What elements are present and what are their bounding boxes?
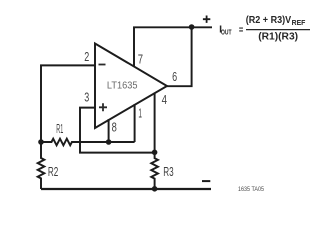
resistor R3 value label: [163, 165, 173, 179]
resistor R2: [38, 142, 45, 189]
op-amp part label LT1635: [107, 80, 138, 91]
svg-text:REF: REF: [292, 20, 307, 27]
pin number 1: [138, 107, 142, 121]
svg-text:8: 8: [112, 121, 117, 135]
op-amp U1 LT1635 triangle: [95, 44, 167, 129]
wire pin 1: [134, 104, 136, 142]
node D junction dot R3 on bottom rail: [152, 186, 158, 192]
node E junction dot output on top wire: [189, 24, 195, 30]
wire bottom rail: [41, 188, 211, 190]
svg-text:=: =: [239, 24, 243, 36]
svg-text:(R2 + R3)V: (R2 + R3)V: [246, 14, 292, 26]
node C junction dot pin3/pin4/R3: [152, 150, 158, 156]
svg-text:6: 6: [172, 70, 177, 84]
output current label IOUT equation: [219, 24, 243, 37]
svg-text:LT1635: LT1635: [107, 80, 138, 91]
wire pin 4: [154, 93, 156, 153]
wire pin 2 input: [41, 65, 95, 142]
resistor R3: [151, 152, 158, 189]
node B junction dot pin8 on R1 wire: [106, 139, 112, 145]
svg-text:3: 3: [84, 91, 89, 105]
svg-text:OUT: OUT: [221, 29, 232, 36]
pin number 7: [138, 53, 143, 67]
wire pin 8: [108, 119, 110, 142]
equation fraction bar: [246, 29, 310, 31]
svg-text:R3: R3: [163, 165, 173, 179]
resistor R2 value label: [48, 165, 58, 179]
wire pin 3 input: [80, 108, 155, 153]
svg-text:R2: R2: [48, 165, 58, 179]
op-amp inverting input minus symbol: [99, 64, 106, 66]
svg-text:2: 2: [84, 50, 89, 64]
pin number 8: [112, 121, 117, 135]
positive terminal plus sign: [203, 16, 210, 23]
pin number 3: [84, 91, 89, 105]
wire pin 7 supply to output terminal: [134, 27, 212, 67]
svg-text:1635 TA05: 1635 TA05: [238, 187, 265, 193]
svg-text:4: 4: [162, 93, 167, 107]
pin number 4: [162, 93, 167, 107]
svg-text:(R1)(R3): (R1)(R3): [258, 30, 298, 42]
svg-text:R1: R1: [56, 122, 63, 136]
equation denominator (R1)(R3): [258, 30, 298, 42]
svg-text:1: 1: [138, 107, 142, 121]
op-amp non-inverting input plus symbol: [99, 103, 107, 111]
resistor R1 value label: [56, 122, 63, 136]
node A junction dot R1/R2/pin2: [38, 139, 44, 145]
pin number 6: [172, 70, 177, 84]
svg-text:7: 7: [138, 53, 143, 67]
figure tag 1635 TA05: [238, 187, 265, 193]
wire pin 6 output feedback: [167, 27, 192, 86]
equation numerator (R2 + R3)VREF: [246, 14, 306, 27]
pin number 2: [84, 50, 89, 64]
resistor R1: [41, 139, 135, 146]
negative terminal minus sign: [202, 180, 210, 182]
